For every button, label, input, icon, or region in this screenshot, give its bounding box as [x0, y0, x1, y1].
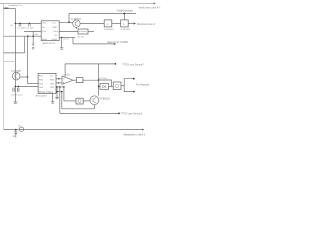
- svg-text:T3 BD135: T3 BD135: [99, 99, 110, 101]
- svg-text:C4 1u: C4 1u: [17, 95, 24, 97]
- svg-text:IC1B 4011: IC1B 4011: [121, 29, 132, 31]
- svg-text:XTAL1 XTAL2: XTAL1 XTAL2: [39, 91, 54, 94]
- svg-text:PB3: PB3: [39, 84, 44, 86]
- svg-text:GND: GND: [52, 27, 57, 29]
- svg-text:Gnd: Gnd: [39, 87, 44, 89]
- svg-text:MAX232CPE: MAX232CPE: [42, 42, 55, 45]
- svg-text:Schaltplan 1 xx: Schaltplan 1 xx: [8, 4, 23, 7]
- svg-text:PB4: PB4: [50, 84, 55, 86]
- svg-text:1: 1: [107, 22, 109, 26]
- svg-text:IC1A 4011: IC1A 4011: [104, 28, 114, 31]
- svg-text:RST: RST: [39, 75, 44, 77]
- svg-text:ATtiny2313: ATtiny2313: [36, 95, 48, 98]
- svg-text:Verify time Limit # ?: Verify time Limit # ?: [139, 6, 161, 9]
- svg-text:+5v@Gatebrain: +5v@Gatebrain: [116, 10, 134, 13]
- svg-text:C1 100n: C1 100n: [17, 27, 26, 29]
- svg-text:PB0: PB0: [39, 79, 44, 81]
- svg-text:???2V vom Sensor2: ???2V vom Sensor2: [121, 112, 143, 115]
- svg-text:T1 BC547: T1 BC547: [71, 19, 82, 21]
- svg-text:C1+: C1+: [52, 23, 57, 25]
- svg-text:Vin: Vin: [42, 27, 46, 29]
- svg-text:C5 1u: C5 1u: [63, 39, 70, 41]
- svg-text:R1 4k7: R1 4k7: [78, 36, 85, 38]
- svg-text:Gate/LS @ Xmt999: Gate/LS @ Xmt999: [107, 41, 128, 44]
- svg-text:PB5: PB5: [50, 87, 55, 89]
- svg-text:???2V vom Sensor?: ???2V vom Sensor?: [122, 63, 144, 66]
- svg-text:For Repeats: For Repeats: [136, 83, 150, 86]
- svg-text:D2 Z5v1: D2 Z5v1: [100, 78, 109, 80]
- svg-text:10p: 10p: [35, 34, 39, 36]
- svg-text:1: 1: [123, 22, 125, 26]
- svg-text:Motorsound an A: Motorsound an A: [137, 23, 155, 26]
- svg-text:Vcc: Vcc: [50, 75, 55, 77]
- svg-text:R1: R1: [55, 35, 58, 37]
- svg-text:Gnd1: Gnd1: [42, 39, 48, 41]
- svg-text:C2 10u: C2 10u: [26, 27, 34, 29]
- svg-text:T1in: T1in: [42, 31, 47, 33]
- svg-text:T1out: T1out: [52, 30, 58, 33]
- svg-text:PB2: PB2: [50, 79, 55, 81]
- svg-text:Vout: Vout: [42, 22, 47, 25]
- svg-text:Gnd2: Gnd2: [52, 39, 58, 41]
- svg-text:+B: +B: [10, 25, 13, 27]
- svg-text:Marderabw o blink 2: Marderabw o blink 2: [124, 133, 146, 136]
- svg-text:T2 BC557: T2 BC557: [11, 71, 22, 73]
- svg-text:LM358: LM358: [64, 75, 71, 77]
